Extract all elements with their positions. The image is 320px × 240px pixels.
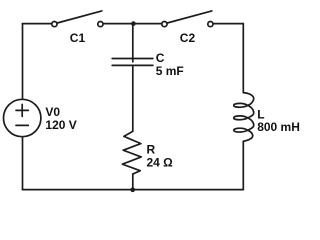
wire middle branch between capacitor and resistor: [132, 65, 134, 131]
V0 minus sign: [16, 124, 28, 126]
svg-text:V0: V0: [45, 105, 60, 119]
switch C2 right terminal: [208, 22, 213, 27]
switch C1 left terminal: [52, 22, 57, 27]
wire top-middle segment: [103, 23, 161, 25]
switch C2 left terminal: [162, 22, 167, 27]
V0 plus sign: [16, 104, 28, 116]
switch C1 right terminal: [98, 22, 103, 27]
svg-text:C1: C1: [70, 31, 86, 45]
wire left vertical upper: [22, 24, 24, 100]
resistor R zigzag: [122, 131, 141, 174]
svg-text:5 mF: 5 mF: [156, 64, 184, 78]
voltage source V0 circle: [4, 99, 41, 136]
wire right vertical upper: [242, 24, 244, 93]
inductor L coil: [234, 93, 254, 142]
wire right vertical lower: [242, 141, 244, 189]
junction node top: [131, 21, 136, 26]
switch C1 blade: [57, 11, 102, 23]
capacitor C bottom plate: [112, 64, 153, 66]
switch C2 blade: [167, 11, 212, 23]
wire top-left segment: [23, 23, 52, 25]
wire middle branch lower: [132, 174, 134, 190]
junction node bottom: [130, 187, 135, 192]
wire middle branch upper: [132, 24, 134, 62]
svg-text:C2: C2: [180, 31, 196, 45]
wire bottom: [23, 189, 244, 191]
svg-text:L: L: [257, 107, 264, 121]
svg-text:120 V: 120 V: [45, 118, 76, 132]
wire top-right segment: [213, 23, 243, 25]
wire left vertical lower: [22, 137, 24, 190]
svg-text:24 Ω: 24 Ω: [147, 156, 174, 170]
capacitor C top plate: [112, 58, 153, 60]
svg-text:R: R: [147, 142, 156, 156]
svg-text:800 mH: 800 mH: [257, 120, 300, 134]
